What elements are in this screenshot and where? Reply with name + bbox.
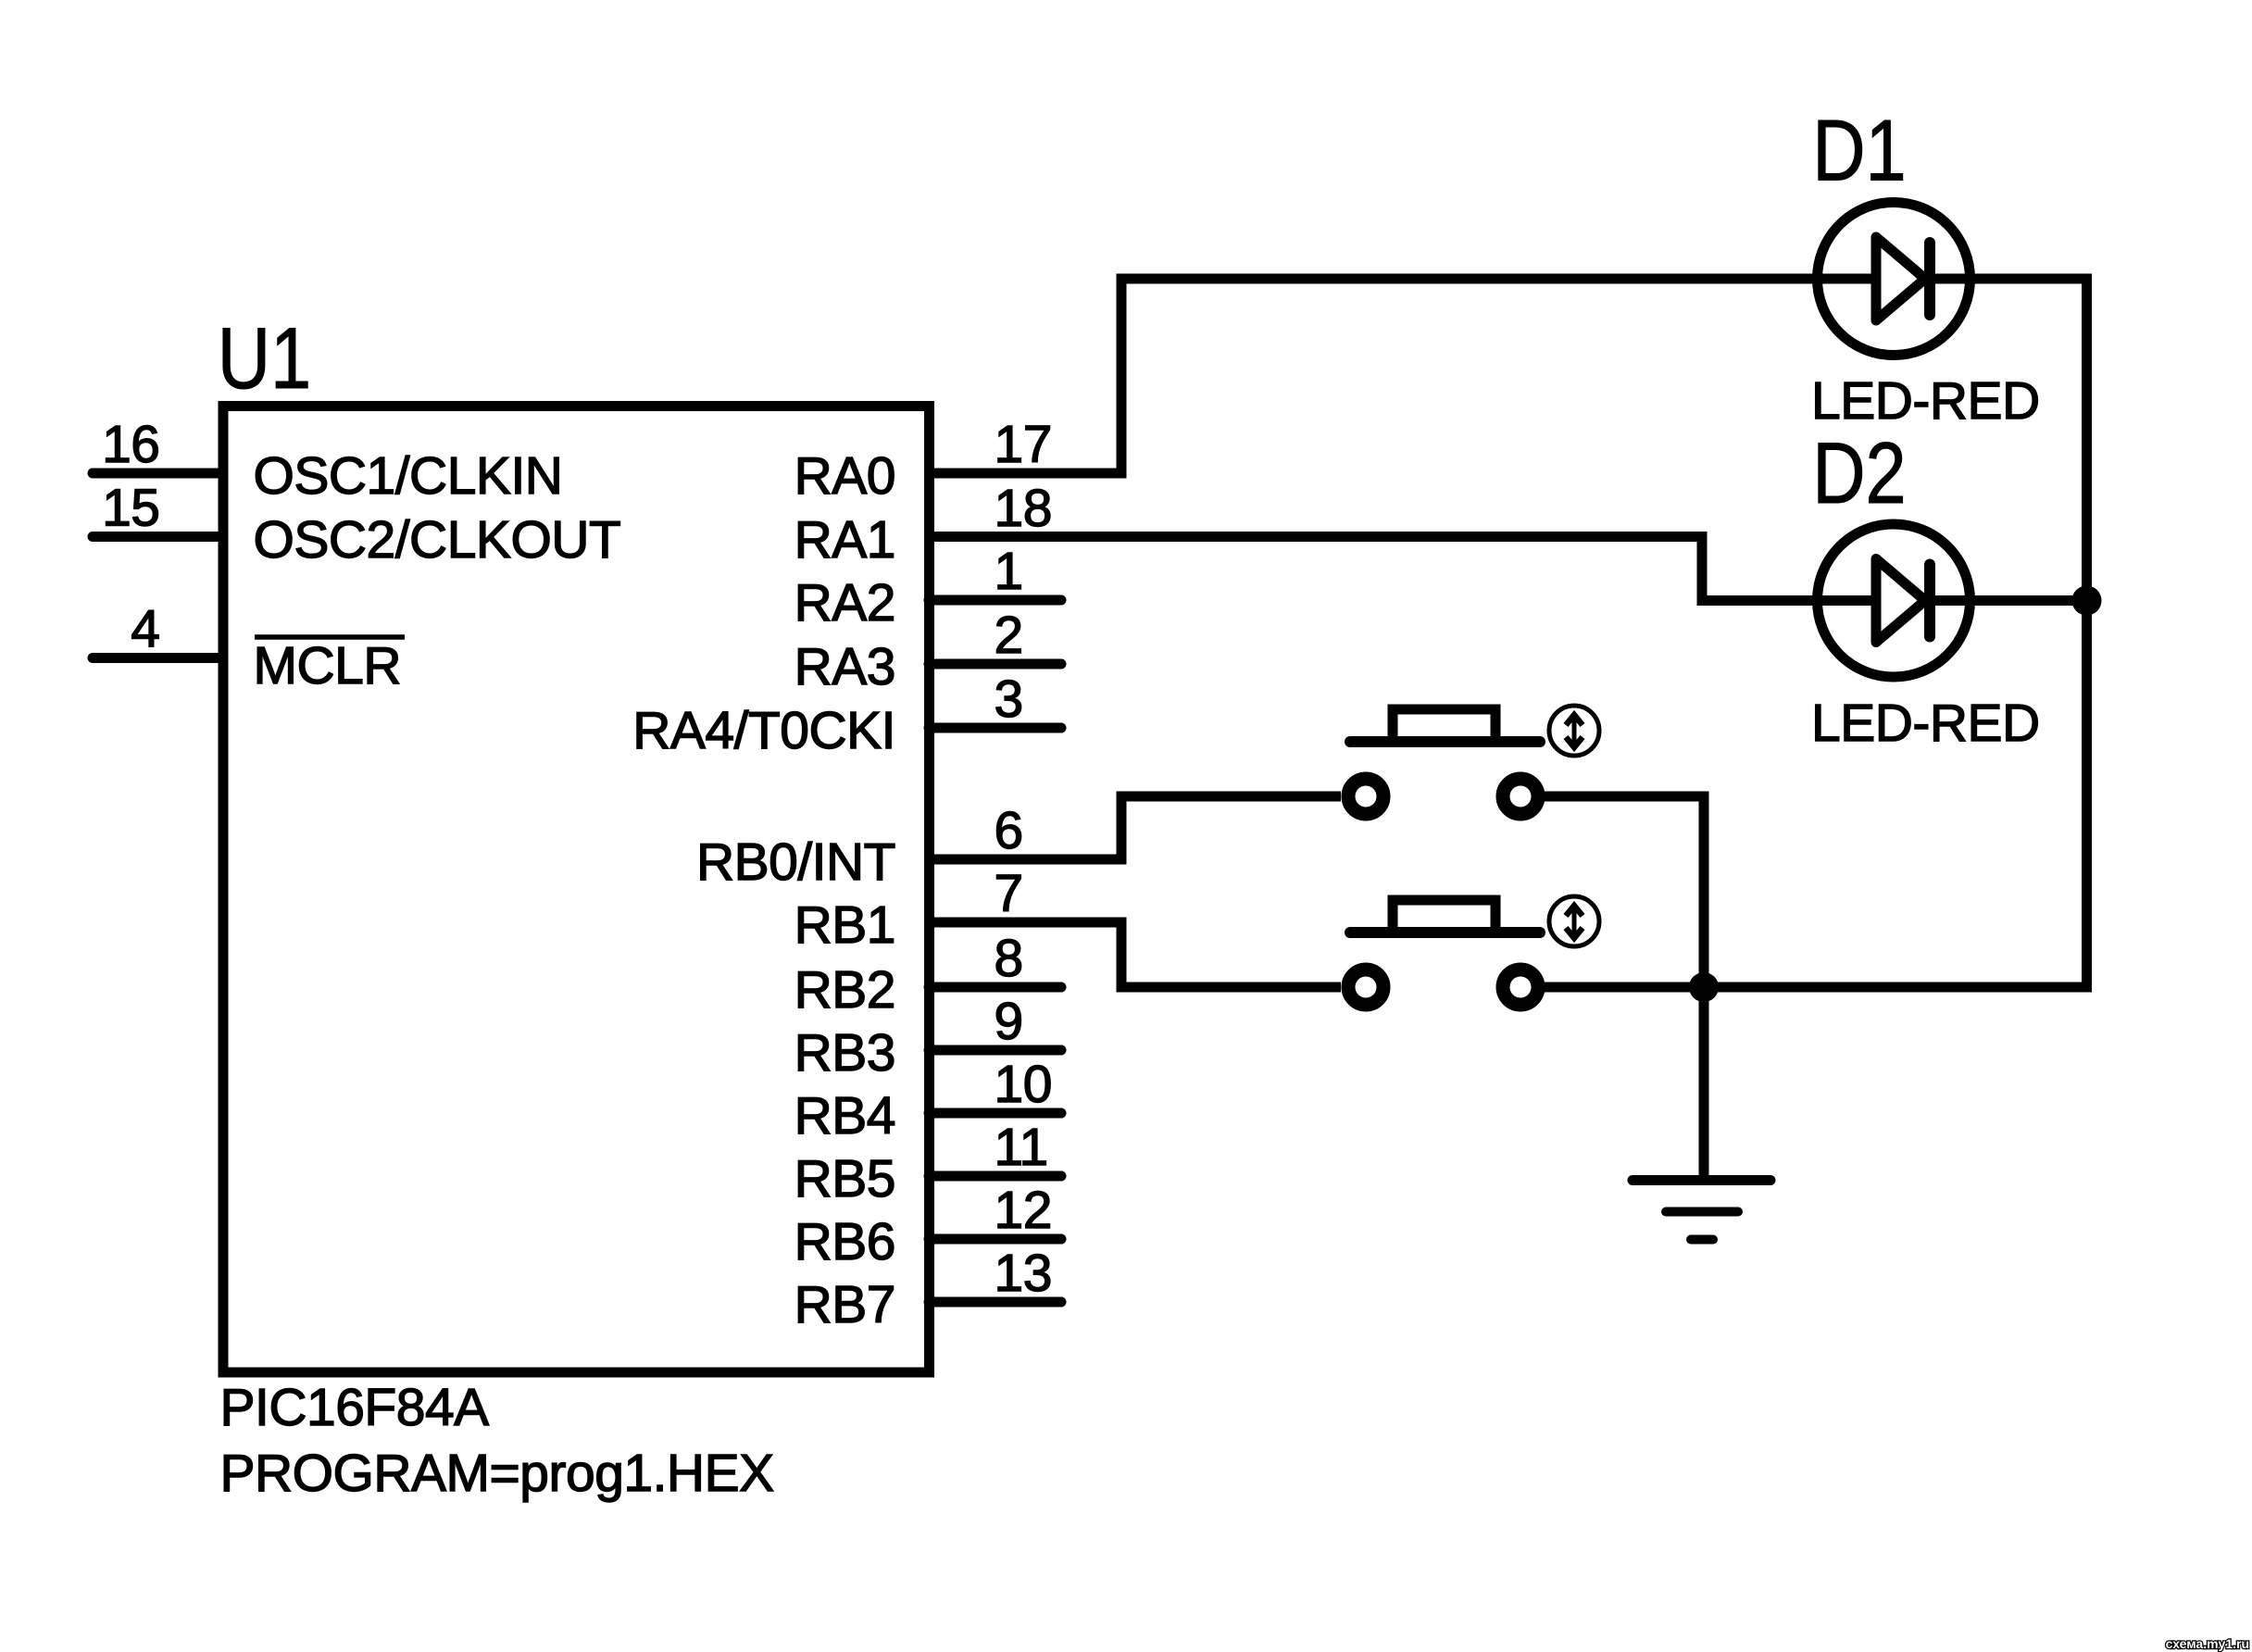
svg-text:RB4: RB4 [794, 1086, 895, 1145]
svg-text:8: 8 [995, 929, 1023, 988]
push button SW2 (RB1) [1348, 896, 1599, 1005]
pin RA2 stub wire [929, 595, 1061, 606]
pin RB6 stub wire [929, 1234, 1061, 1245]
svg-text:схема.my1.ru: схема.my1.ru [2166, 1636, 2249, 1651]
pin RB3 stub wire [929, 1045, 1061, 1056]
svg-text:RB2: RB2 [794, 960, 895, 1020]
svg-text:RB7: RB7 [794, 1275, 895, 1334]
pin label OSC2/CLKOUT [254, 510, 621, 569]
pin label RB6 [794, 1212, 895, 1271]
svg-text:12: 12 [995, 1181, 1052, 1240]
wire net RA0 to D1 anode, D1 cathode to right bus down to button row [929, 279, 2087, 987]
pin 15 OSC2/CLKOUT wire [93, 532, 223, 542]
pin label RB3 [794, 1023, 895, 1083]
svg-text:11: 11 [995, 1118, 1048, 1177]
pin label RB5 [794, 1149, 895, 1208]
pin label RA1 [794, 510, 895, 569]
wire ground drop [1699, 987, 1709, 1180]
ground symbol [1633, 1181, 1770, 1240]
value label LED-RED for D2 [1811, 694, 2040, 753]
pin number 12 [995, 1181, 1052, 1240]
pin label RB4 [794, 1086, 895, 1145]
svg-text:U1: U1 [218, 310, 312, 407]
pin RA3 stub wire [929, 659, 1061, 670]
svg-text:13: 13 [995, 1244, 1052, 1303]
pin label RB0/INT [696, 832, 895, 892]
pin number 8 [995, 929, 1023, 988]
svg-text:18: 18 [995, 479, 1052, 538]
value label PROGRAM=prog1.HEX [220, 1444, 774, 1503]
pin RB2 stub wire [929, 982, 1061, 993]
pin number 1 [995, 542, 1023, 601]
svg-text:15: 15 [102, 479, 159, 538]
svg-text:9: 9 [995, 992, 1023, 1051]
value label LED-RED for D1 [1811, 371, 2040, 431]
pin 16 OSC1/CLKIN wire [93, 469, 223, 479]
pin number 18 [995, 479, 1052, 538]
svg-text:LED-RED: LED-RED [1811, 694, 2040, 753]
diode D2 (LED-RED) [1818, 524, 1970, 677]
pin label RB7 [794, 1275, 895, 1334]
pin label RA2 [794, 573, 895, 632]
svg-text:7: 7 [995, 864, 1023, 923]
wire net RB0 to button SW1 left contact [929, 796, 1341, 859]
svg-text:1: 1 [995, 542, 1023, 601]
svg-text:RB1: RB1 [794, 895, 895, 955]
pin number 15 [102, 479, 159, 538]
svg-text:16: 16 [102, 415, 159, 474]
label D1 [1812, 102, 1907, 199]
push button SW1 (RB0) [1348, 706, 1599, 814]
pin label MCLR with overline [254, 636, 406, 695]
value label PIC16F84A [220, 1378, 490, 1437]
pin number 11 [995, 1118, 1048, 1177]
svg-text:RB6: RB6 [794, 1212, 895, 1271]
wire from SW1 right contact to right bus [1545, 796, 1704, 987]
wire net RB1 to button SW2 left contact [929, 922, 1341, 987]
pin number 6 [995, 801, 1023, 860]
svg-text:2: 2 [995, 606, 1023, 665]
pin label RB2 [794, 960, 895, 1020]
pin number 4 [131, 600, 159, 659]
svg-text:10: 10 [995, 1055, 1052, 1114]
node junction at button common / ground [1689, 972, 1719, 1002]
diode D1 (LED-RED) [1818, 203, 1970, 356]
pin label OSC1/CLKIN [254, 446, 563, 506]
label D2 [1812, 425, 1907, 522]
svg-text:RA4/T0CKI: RA4/T0CKI [632, 701, 895, 760]
svg-text:PIC16F84A: PIC16F84A [220, 1378, 490, 1437]
svg-text:3: 3 [995, 670, 1023, 729]
svg-text:LED-RED: LED-RED [1811, 371, 2040, 431]
svg-text:OSC2/CLKOUT: OSC2/CLKOUT [254, 510, 621, 569]
svg-text:RA1: RA1 [794, 510, 895, 569]
svg-text:17: 17 [995, 415, 1052, 474]
pin RB7 stub wire [929, 1297, 1061, 1308]
pin number 9 [995, 992, 1023, 1051]
svg-text:RA0: RA0 [794, 446, 895, 506]
IC U1 PIC16F84A microcontroller body [218, 310, 930, 1372]
pin number 16 [102, 415, 159, 474]
pin RB4 stub wire [929, 1108, 1061, 1119]
pin number 3 [995, 670, 1023, 729]
pin number 7 [995, 864, 1023, 923]
svg-text:D1: D1 [1812, 102, 1907, 199]
svg-text:6: 6 [995, 801, 1023, 860]
pin label RA0 [794, 446, 895, 506]
pin RA4 stub wire [929, 723, 1061, 733]
svg-text:D2: D2 [1812, 425, 1907, 522]
pin RB5 stub wire [929, 1171, 1061, 1182]
svg-text:RB3: RB3 [794, 1023, 895, 1083]
pin 4 MCLR wire [93, 653, 223, 663]
svg-text:RB0/INT: RB0/INT [696, 832, 895, 892]
svg-text:OSC1/CLKIN: OSC1/CLKIN [254, 446, 563, 506]
pin label RA4/T0CKI [632, 701, 895, 760]
pin label RB1 [794, 895, 895, 955]
pin label RA3 [794, 637, 895, 696]
svg-text:MCLR: MCLR [254, 636, 402, 695]
pin number 2 [995, 606, 1023, 665]
svg-text:4: 4 [131, 600, 159, 659]
pin number 13 [995, 1244, 1052, 1303]
svg-text:RA2: RA2 [794, 573, 895, 632]
wire net RA1 to D2 anode [929, 537, 2087, 601]
svg-text:RA3: RA3 [794, 637, 895, 696]
svg-text:PROGRAM=prog1.HEX: PROGRAM=prog1.HEX [220, 1444, 774, 1503]
watermark схема.my1.ru [2166, 1636, 2249, 1651]
pin number 17 [995, 415, 1052, 474]
node junction at D2 cathode / LED bus [2072, 586, 2102, 616]
pin number 10 [995, 1055, 1052, 1114]
svg-text:RB5: RB5 [794, 1149, 895, 1208]
